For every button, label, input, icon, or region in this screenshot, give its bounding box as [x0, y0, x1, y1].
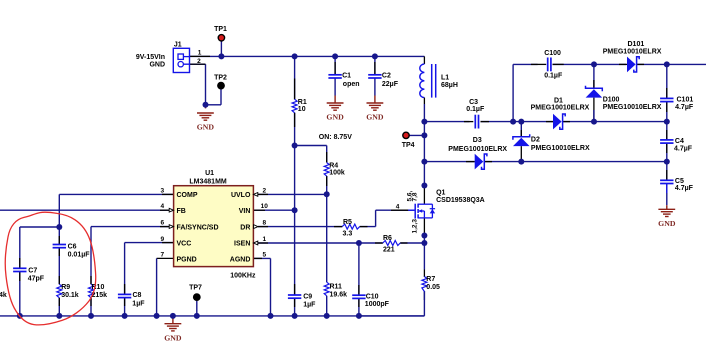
svg-text:R7: R7 [426, 276, 435, 283]
svg-text:LM3481MM: LM3481MM [189, 178, 227, 185]
svg-text:TP4: TP4 [402, 142, 415, 149]
svg-text:GND: GND [326, 113, 344, 122]
svg-text:1: 1 [198, 49, 202, 56]
svg-text:0.05: 0.05 [426, 284, 440, 291]
svg-text:AGND: AGND [230, 256, 251, 263]
svg-text:1000pF: 1000pF [365, 301, 390, 308]
svg-text:R1: R1 [298, 99, 307, 106]
svg-text:47pF: 47pF [28, 276, 45, 283]
svg-text:U1: U1 [205, 170, 214, 177]
svg-text:R10: R10 [92, 284, 105, 291]
svg-text:10: 10 [261, 203, 269, 210]
svg-text:100k: 100k [329, 170, 345, 177]
svg-text:19.6k: 19.6k [330, 292, 348, 299]
svg-text:C9: C9 [303, 294, 312, 301]
svg-text:C3: C3 [469, 99, 478, 106]
svg-text:PMEG10010ELRX: PMEG10010ELRX [448, 146, 507, 153]
svg-text:9V-15VIn: 9V-15VIn [136, 54, 165, 61]
svg-text:C2: C2 [382, 73, 391, 80]
svg-text:GND: GND [658, 219, 676, 228]
svg-text:7: 7 [160, 252, 164, 259]
svg-text:4.7µF: 4.7µF [675, 185, 694, 192]
svg-text:4k: 4k [0, 292, 7, 299]
svg-text:2: 2 [197, 58, 201, 65]
svg-text:D101: D101 [628, 41, 645, 48]
svg-text:4: 4 [160, 203, 164, 210]
svg-text:COMP: COMP [177, 192, 198, 199]
svg-text:30.1k: 30.1k [61, 292, 79, 299]
svg-text:PMEG10010ELRX: PMEG10010ELRX [531, 145, 590, 152]
svg-text:R9: R9 [61, 284, 70, 291]
svg-text:TP1: TP1 [214, 26, 227, 33]
svg-text:C101: C101 [677, 97, 694, 104]
svg-text:3: 3 [160, 187, 164, 194]
svg-text:4: 4 [396, 204, 400, 211]
svg-text:D1: D1 [554, 97, 563, 104]
svg-text:C5: C5 [675, 178, 684, 185]
svg-text:D100: D100 [603, 97, 620, 104]
svg-text:8: 8 [262, 220, 266, 227]
svg-text:PMEG10010ELRX: PMEG10010ELRX [603, 104, 662, 111]
svg-text:VCC: VCC [177, 241, 192, 248]
svg-text:UVLO: UVLO [231, 192, 251, 199]
svg-text:Q1: Q1 [436, 190, 445, 197]
svg-text:C10: C10 [366, 294, 379, 301]
svg-text:1µF: 1µF [303, 302, 316, 309]
svg-text:C7: C7 [28, 268, 37, 275]
svg-text:DR: DR [240, 224, 250, 231]
svg-text:22µF: 22µF [382, 81, 399, 88]
svg-text:10: 10 [298, 106, 306, 113]
svg-text:1,2,3: 1,2,3 [411, 219, 418, 234]
svg-text:R6: R6 [383, 235, 392, 242]
svg-text:CSD19538Q3A: CSD19538Q3A [436, 197, 485, 204]
svg-text:R11: R11 [330, 284, 343, 291]
svg-text:TP2: TP2 [214, 75, 227, 82]
svg-text:0.1µF: 0.1µF [466, 106, 485, 113]
svg-text:7,8: 7,8 [411, 192, 418, 201]
svg-text:2: 2 [262, 187, 266, 194]
svg-text:C4: C4 [675, 138, 684, 145]
svg-text:5: 5 [262, 252, 266, 259]
svg-text:ISEN: ISEN [234, 241, 250, 248]
svg-text:GND: GND [164, 333, 182, 342]
svg-text:0.01µF: 0.01µF [68, 252, 91, 259]
svg-text:1µF: 1µF [132, 301, 145, 308]
svg-text:6: 6 [160, 220, 164, 227]
svg-text:open: open [343, 81, 360, 88]
svg-text:100KHz: 100KHz [230, 272, 256, 279]
svg-text:C6: C6 [68, 244, 77, 251]
svg-text:4.7µF: 4.7µF [674, 146, 693, 153]
svg-text:3.3: 3.3 [343, 231, 353, 238]
svg-text:D2: D2 [531, 136, 540, 143]
svg-text:C100: C100 [544, 50, 561, 57]
svg-text:FB: FB [177, 208, 186, 215]
svg-text:PGND: PGND [177, 256, 197, 263]
svg-text:C1: C1 [342, 73, 351, 80]
svg-text:R5: R5 [343, 219, 352, 226]
svg-text:PMEG10010ELRX: PMEG10010ELRX [531, 104, 590, 111]
svg-text:1: 1 [262, 236, 266, 243]
svg-text:4.7µF: 4.7µF [675, 104, 694, 111]
svg-text:J1: J1 [174, 42, 182, 49]
svg-text:GND: GND [366, 113, 384, 122]
svg-text:D3: D3 [473, 137, 482, 144]
svg-text:221: 221 [383, 247, 395, 254]
svg-text:R4: R4 [329, 163, 338, 170]
svg-text:TP7: TP7 [189, 285, 202, 292]
svg-text:GND: GND [149, 62, 165, 69]
svg-text:PMEG10010ELRX: PMEG10010ELRX [603, 48, 662, 55]
svg-text:VIN: VIN [239, 208, 251, 215]
svg-text:FA/SYNC/SD: FA/SYNC/SD [177, 224, 219, 231]
svg-text:0.1µF: 0.1µF [544, 73, 563, 80]
svg-text:C8: C8 [133, 292, 142, 299]
svg-text:GND: GND [197, 123, 215, 132]
svg-text:68µH: 68µH [441, 82, 458, 89]
svg-text:9: 9 [160, 236, 164, 243]
svg-text:L1: L1 [441, 75, 449, 82]
svg-text:ON: 8.75V: ON: 8.75V [319, 134, 352, 141]
